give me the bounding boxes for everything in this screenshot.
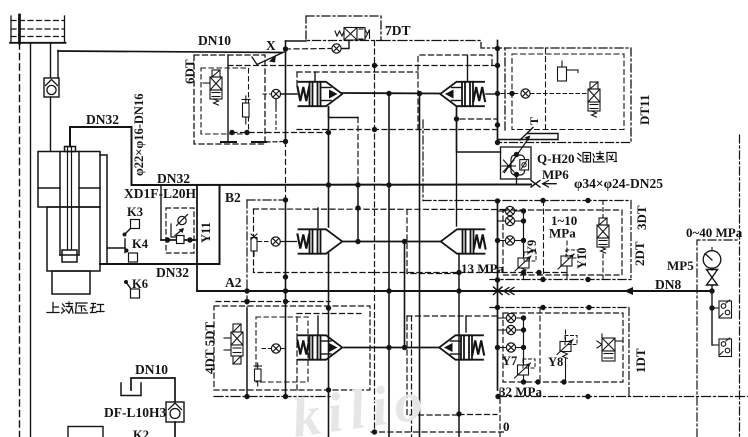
node <box>417 91 422 96</box>
wire bus x=328.5 <box>328 107 330 227</box>
wire orifice to row2 valve <box>281 241 297 243</box>
dashed y=273.5 to right group <box>375 272 568 274</box>
node <box>165 237 170 242</box>
orifice feed lines <box>498 318 524 348</box>
wire below DF valve <box>174 422 176 437</box>
node <box>540 198 545 203</box>
bottom dash-dot y=394 <box>214 396 330 398</box>
svg-text:φ22×φ16-DN16: φ22×φ16-DN16 <box>132 94 146 176</box>
node <box>585 277 590 282</box>
orifice DT11 <box>521 89 530 98</box>
svg-text:DN32: DN32 <box>86 112 119 127</box>
stub Q-H20 to B2 <box>516 175 518 185</box>
dashed y=415 <box>459 414 497 416</box>
svg-text:3DT: 3DT <box>634 205 649 230</box>
6DT valve side stub <box>203 82 210 84</box>
svg-text:K4: K4 <box>132 237 149 251</box>
node <box>386 182 391 187</box>
node Q-H20 top <box>514 152 519 157</box>
svg-text:32 MPa: 32 MPa <box>499 384 542 399</box>
pilot dash-dot to 4DT <box>247 199 286 201</box>
relief element in 6DT box <box>242 96 250 124</box>
4DT5DT inner dashed box <box>256 317 308 382</box>
dashed stub to orifice row2 <box>258 241 271 243</box>
svg-text:MP5: MP5 <box>667 258 694 273</box>
node <box>283 288 288 293</box>
wire: supply into manifold <box>18 15 21 43</box>
svg-text:X: X <box>266 38 276 53</box>
wire bus x=404.5 <box>404 242 406 348</box>
svg-text:2DT: 2DT <box>632 241 647 266</box>
svg-text:7DT: 7DT <box>385 23 411 38</box>
node <box>540 305 545 310</box>
pilot valve 1DT <box>597 334 623 361</box>
relief valve Y9 <box>515 252 536 275</box>
node on x=285.5 <box>283 197 288 202</box>
pilot port X symbol <box>252 52 284 65</box>
tank manifold box (open top) <box>10 16 66 43</box>
wire: vertical bus x=285.5 upper <box>285 41 287 142</box>
node <box>326 387 331 392</box>
wire row1 right valve to x497 <box>486 93 498 95</box>
svg-text:DN8: DN8 <box>655 277 681 292</box>
cartridge valve row1 right (mirrored) <box>441 82 485 106</box>
wire x=523.5 down to Y9 <box>523 211 525 258</box>
reducing element DT11 <box>558 61 579 81</box>
DT11 dash-dot box <box>500 48 631 143</box>
node <box>509 91 514 96</box>
right dash-dot edge <box>739 135 741 437</box>
switch K4 <box>107 239 138 262</box>
node <box>386 91 391 96</box>
dashed top edge row1 box <box>297 71 418 73</box>
node <box>372 63 377 68</box>
svg-text:DN10: DN10 <box>135 362 168 377</box>
wire A2 stub from cylinder (y=264) <box>100 263 220 265</box>
wire dashed vertical x=374.5 <box>374 41 376 433</box>
svg-text:0: 0 <box>503 419 510 434</box>
orifice feed lines <box>498 211 524 241</box>
wire x=523.5 down to Y7 <box>523 318 525 365</box>
node <box>244 130 249 135</box>
node <box>244 288 249 293</box>
node: DN10/X junction <box>283 46 288 51</box>
check valve DF-L10H3 <box>166 402 184 422</box>
svg-text:K3: K3 <box>127 205 143 219</box>
wire DN32 vertical phi22 <box>131 127 133 185</box>
1DT right dash-dot edge <box>628 308 630 397</box>
svg-text:4DT 5DT: 4DT 5DT <box>202 322 217 374</box>
DT11 inner divider dashed <box>545 48 547 130</box>
wire L-step row1 left valve bottom <box>329 107 359 118</box>
pilot valve connections <box>602 201 604 219</box>
node <box>454 116 459 121</box>
dashed row2 right box <box>407 210 459 274</box>
dashed wire y=93.5 <box>501 93 521 95</box>
node on x=285.5 <box>283 394 288 399</box>
wire dashed y=132.5 <box>232 132 329 134</box>
1DT group dash-dot top y=307.5 <box>490 307 629 309</box>
svg-text:13 MPa: 13 MPa <box>461 261 504 276</box>
node <box>521 208 526 213</box>
node <box>355 182 360 187</box>
4DT5DT outer dashed box <box>214 306 370 390</box>
wire bus x=419.5 <box>419 94 421 437</box>
node <box>456 270 461 275</box>
node <box>536 270 541 275</box>
svg-text:B2: B2 <box>225 190 241 205</box>
svg-text:0~40 MPa: 0~40 MPa <box>686 225 743 240</box>
relief element row2 <box>251 234 257 256</box>
cartridge valve row3 right (mirrored) <box>440 335 484 359</box>
label 调速阀 (hand-drawn glyphs) <box>578 152 617 163</box>
left dashed boundary x=19.5 <box>19 43 21 437</box>
wire gauge to DN8 <box>711 268 713 270</box>
svg-text:Y10: Y10 <box>575 247 589 269</box>
svg-text:1DT: 1DT <box>633 348 648 373</box>
dashed row2 box top y=208 <box>254 208 509 211</box>
wire x=247 vertical (pilot dash-dot upper) <box>246 200 248 309</box>
node <box>372 429 377 434</box>
pressure gauge MP5 <box>703 248 721 269</box>
wire: cylinder side port <box>100 155 107 264</box>
wire Y10 vertical <box>566 241 568 256</box>
arrow on DN8 <box>624 287 633 295</box>
svg-text:MP6: MP6 <box>542 167 569 182</box>
pilot valve 7DT (horizontal) <box>335 28 370 41</box>
node <box>521 270 526 275</box>
svg-text:K6: K6 <box>132 277 148 291</box>
6DT group outer dashed box <box>194 55 265 144</box>
node Q-H20 bottom <box>514 172 519 177</box>
svg-text:DN10: DN10 <box>198 33 231 48</box>
node <box>586 305 591 310</box>
node on x=285.5 <box>283 299 288 304</box>
node <box>326 130 331 135</box>
wire B2 main (y=185) <box>132 184 532 187</box>
wire: check valve to cylinder top <box>50 97 52 151</box>
MP5 dash-dot enclosure <box>697 240 740 437</box>
dashed vertical x=411.5 <box>411 316 413 437</box>
svg-text:6DT: 6DT <box>182 59 197 84</box>
node <box>521 379 526 384</box>
svg-text:DN32: DN32 <box>157 171 190 186</box>
svg-text:XD1F-L20H: XD1F-L20H <box>124 186 196 201</box>
wire: manifold to check valve <box>50 43 52 78</box>
node <box>521 327 526 332</box>
tank return bracket <box>121 383 141 396</box>
dashed y=118.5 <box>460 118 498 120</box>
stub row3 left valve top <box>317 316 319 335</box>
wire: y41 stub to 7DT box <box>286 40 307 42</box>
node <box>495 238 500 243</box>
stub row2 left valve top <box>317 208 319 228</box>
dash-dot stub x=423 <box>422 120 424 201</box>
node <box>585 394 590 399</box>
1DT dashed box <box>503 313 623 382</box>
node <box>521 238 526 243</box>
switch K6 <box>124 280 140 298</box>
wire Y9 to bottom <box>523 275 525 280</box>
node <box>386 288 391 293</box>
dashed row3 right box <box>407 316 459 415</box>
dashed row3 top right y=316 <box>407 315 497 317</box>
node <box>709 305 714 310</box>
dashes around orifice <box>262 348 271 350</box>
node <box>540 277 545 282</box>
2DT3DT dashed box <box>503 210 622 275</box>
main vertical bus x=497.5 upper <box>497 41 499 145</box>
node <box>535 379 540 384</box>
svg-text:K2: K2 <box>133 428 149 437</box>
wire: riser A2-B2 x=219.5 <box>219 185 221 264</box>
node <box>283 274 288 279</box>
2DT3DT group dash-dot top y=200.5 <box>423 200 631 202</box>
node <box>326 305 331 310</box>
svg-text:Y8: Y8 <box>548 355 563 369</box>
bottom-left box <box>68 427 103 437</box>
pilot valve 2DT/3DT <box>597 218 609 253</box>
orifice 4DT <box>271 344 280 353</box>
node <box>187 237 192 242</box>
orifice near 6DT <box>271 89 280 98</box>
dashed y=434 bottom center <box>371 431 507 433</box>
stub row2 right valve top <box>456 107 458 226</box>
node <box>495 122 500 127</box>
DT11 inner dashed box <box>512 54 624 130</box>
measure point X on A2 <box>494 287 515 295</box>
node <box>495 91 500 96</box>
svg-text:DT11: DT11 <box>637 95 652 125</box>
wire DN32 upper: rod port riser <box>70 127 132 147</box>
node <box>521 345 526 350</box>
pilot valve 6DT <box>210 70 222 105</box>
node <box>456 288 461 293</box>
wire row2 output y=240.5 <box>342 241 441 243</box>
pressure switch box 2 <box>712 338 732 357</box>
node <box>456 411 461 416</box>
node <box>402 345 407 350</box>
pressure switch box 1 <box>712 300 732 318</box>
node <box>244 299 249 304</box>
wire: vertical bus x=285.5 lower <box>285 200 287 397</box>
wire Y8 vertical <box>565 330 567 342</box>
relief element 4DT box <box>254 363 262 386</box>
dashed left edge row1 box <box>296 72 298 88</box>
relief valve Y7 <box>515 359 536 378</box>
wire row2 right valve bottom x=459 <box>458 254 460 437</box>
dashed divider 1DT <box>539 308 541 383</box>
T drain steps <box>498 128 559 141</box>
cartridge valve row2 left <box>299 229 343 253</box>
wire x=247 vertical lower <box>246 309 248 397</box>
wire DN10 main (y=51.5) <box>58 51 282 53</box>
orifice stub dashes <box>263 93 271 95</box>
node <box>355 205 360 210</box>
node <box>495 345 500 350</box>
cartridge valve row3 left <box>299 335 343 359</box>
pilot valve DT11 <box>588 82 600 117</box>
prefill valve XD1F-L20H <box>166 208 194 253</box>
node <box>495 140 500 145</box>
svg-text:DF-L10H3: DF-L10H3 <box>104 405 166 420</box>
svg-text:MPa: MPa <box>549 226 576 241</box>
relief valve Y10 <box>558 250 578 269</box>
svg-text:Y7: Y7 <box>502 354 517 368</box>
node <box>386 345 391 350</box>
cartridge valve row2 right (mirrored) <box>441 229 485 253</box>
wire A2 main (y=291) <box>197 290 712 292</box>
svg-text:A2: A2 <box>225 275 242 290</box>
node <box>495 198 500 203</box>
node <box>372 127 377 132</box>
svg-text:Y9: Y9 <box>525 240 539 255</box>
6DT group inner dashed box <box>201 68 249 134</box>
main enclosure dash-dot top <box>381 41 505 49</box>
wire row1 output y=93.5 <box>342 92 441 95</box>
wire orifice to 7DT valve <box>342 41 350 49</box>
wire bus x=389 <box>388 94 390 437</box>
tank bar <box>252 141 266 143</box>
wire DN10 bottom <box>131 378 175 402</box>
2DT3DT bottom dash-dot y=279.5 <box>490 279 631 281</box>
node <box>521 315 526 320</box>
node <box>495 277 500 282</box>
wire: prefill valve line y=240 <box>161 239 197 241</box>
MP6 measure point X <box>531 181 556 188</box>
wire: drop to check line x=161 <box>160 185 162 240</box>
node <box>709 288 714 293</box>
orifice column 1DT <box>506 313 515 322</box>
bottom dash-dot y=396.5 <box>498 396 748 398</box>
switch K3 <box>123 220 140 237</box>
orifice drain stub <box>275 99 277 109</box>
wire: drop to A2 main x=197 <box>196 185 198 291</box>
dashed row3 left box <box>297 314 361 391</box>
orifice column 2DT3DT <box>505 206 514 215</box>
node on x=285.5 <box>283 139 288 144</box>
svg-text:Y11: Y11 <box>199 222 213 243</box>
wire: dashed x=285.5 mid <box>285 142 287 201</box>
node <box>244 299 249 304</box>
Q-H20 flow control valve <box>501 136 532 180</box>
stub row1 left valve top <box>314 72 316 81</box>
node <box>495 63 500 68</box>
svg-text:Q-H20: Q-H20 <box>537 151 575 166</box>
dashed box row1 right <box>418 55 492 130</box>
node <box>495 46 500 51</box>
wire Y7 bottom <box>523 375 525 382</box>
dashed row2 left box <box>254 209 375 273</box>
relief valve Y8 <box>557 336 577 359</box>
node <box>355 239 360 244</box>
7DT dash-dot box <box>306 16 381 41</box>
dashed drain x=500 bottom <box>499 390 501 437</box>
wire dashed to orifice <box>286 48 332 51</box>
cartridge valve row1 left <box>299 82 343 106</box>
wire dashed y=65.5 <box>228 65 498 67</box>
svg-text:φ34×φ24-DN25: φ34×φ24-DN25 <box>574 176 663 191</box>
node <box>495 305 500 310</box>
dashed y=129.5 <box>297 129 498 131</box>
orifice row2 <box>271 237 280 246</box>
stub row1 right valve top <box>467 56 469 81</box>
shutoff valve bowtie <box>707 270 718 286</box>
pilot valve 4DT/5DT <box>224 324 243 364</box>
node <box>561 379 566 384</box>
wire: vertical through 6DT x=228 <box>227 55 229 142</box>
dashed y=303 <box>216 301 330 303</box>
node <box>229 130 234 135</box>
node <box>585 198 590 203</box>
svg-text:DN32: DN32 <box>156 265 189 280</box>
hydraulic cylinder 上液压缸 <box>38 147 100 295</box>
node <box>521 218 526 223</box>
wire to row1 valve <box>281 93 298 95</box>
stub row3 right valve top <box>465 316 467 332</box>
node <box>402 239 407 244</box>
row1 right valve bottom port elbow <box>457 107 501 152</box>
svg-text:T: T <box>527 117 541 125</box>
label 上液压缸 (hand-drawn glyphs) <box>47 302 104 313</box>
tank bar <box>221 141 236 143</box>
node <box>326 182 331 187</box>
wire dashed y=142 <box>266 141 286 144</box>
left solid return line x=30.5 <box>30 43 32 437</box>
2DT3DT right dash-dot edge <box>630 201 632 280</box>
wire: DN10 corner drop to check valve <box>57 51 59 79</box>
check valve (top) <box>44 78 59 97</box>
dashed divider 2DT3DT <box>543 201 545 280</box>
main vertical bus x=497.5 lower <box>497 201 499 390</box>
wire row3 output y=347.5 <box>344 347 440 349</box>
node <box>244 394 249 399</box>
orifice 7DT <box>332 44 341 53</box>
